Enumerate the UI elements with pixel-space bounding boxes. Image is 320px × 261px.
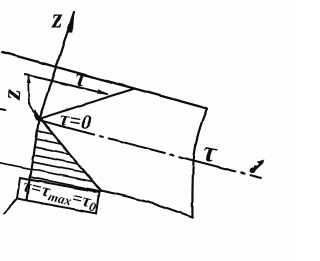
dimension arrow bottom <box>32 109 39 118</box>
svg-text:τ=0: τ=0 <box>58 108 93 135</box>
vertex blob <box>34 113 43 121</box>
dimension arrow top <box>27 76 31 84</box>
hatch line 3 <box>35 147 70 154</box>
dash-dot centerline <box>38 120 261 178</box>
tau arrow line <box>25 75 107 95</box>
right edge of block <box>192 109 207 218</box>
hatch line 5 <box>32 162 85 173</box>
stray stroke bottom left <box>4 199 17 214</box>
svg-text:z: z <box>0 87 27 101</box>
hatch line 7 <box>30 177 101 191</box>
tick at left edge <box>0 109 6 110</box>
hatch line 6 long <box>0 163 92 182</box>
tau arrowhead <box>97 89 109 95</box>
z axis <box>27 12 74 200</box>
top edge of block <box>2 52 207 109</box>
ray from vertex to edge <box>40 89 135 119</box>
hatch line 2 <box>36 139 62 144</box>
dimension line z <box>29 76 37 117</box>
svg-text:τ: τ <box>201 135 220 169</box>
label box <box>17 178 99 214</box>
svg-text:z: z <box>51 4 63 35</box>
hatch line 4 <box>34 155 79 164</box>
bottom edge of block <box>101 191 193 218</box>
letter v at right <box>248 160 264 175</box>
z axis arrowhead <box>67 12 75 33</box>
hypotenuse of stress triangle <box>40 119 101 191</box>
hatch line 1 <box>37 131 53 134</box>
